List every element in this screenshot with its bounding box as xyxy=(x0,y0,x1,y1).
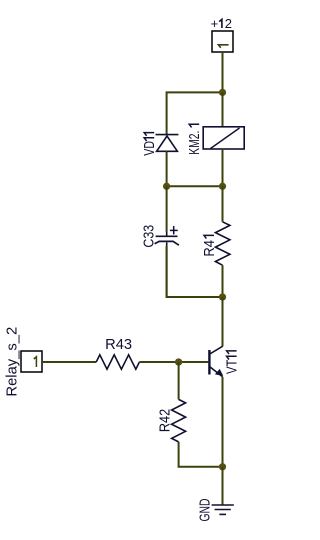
wire terminal to R43 xyxy=(42,361,96,363)
wire R41 to bottom branch xyxy=(222,265,224,297)
svg-text:R42: R42 xyxy=(158,409,174,432)
junction mid right xyxy=(219,183,226,190)
ground symbol xyxy=(212,505,234,514)
relay coil KM2.1 xyxy=(203,127,244,149)
junction mid left xyxy=(163,183,170,190)
svg-text:2: 2 xyxy=(225,16,232,31)
terminal +12 (box) xyxy=(212,31,233,52)
svg-text:GND: GND xyxy=(197,499,213,522)
svg-text:R4: R4 xyxy=(202,240,218,257)
wire base node down to R42 xyxy=(178,362,180,399)
wire relay to mid node xyxy=(222,149,224,186)
wire emitter node to ground xyxy=(222,467,224,505)
label R41 xyxy=(202,235,218,256)
terminal Relay_s_2 (box) xyxy=(21,351,42,372)
resistor R42 xyxy=(172,399,186,442)
diode VD11 xyxy=(156,135,179,152)
terminal +12 pin number 1 xyxy=(218,45,228,48)
svg-text:C33: C33 xyxy=(141,225,157,248)
wire node to relay xyxy=(222,92,224,127)
wire top branch horizontal xyxy=(167,92,223,134)
junction bottom branch node xyxy=(219,293,226,300)
resistor R41 xyxy=(215,222,230,265)
capacitor C33 xyxy=(155,226,179,246)
svg-text:R43: R43 xyxy=(105,337,132,353)
svg-text:+: + xyxy=(211,16,219,31)
transistor VT11 xyxy=(209,346,223,377)
svg-text:Relay_s_2: Relay_s_2 xyxy=(3,327,20,397)
wire capacitor to bottom branch xyxy=(166,246,168,297)
svg-text:KM2.: KM2. xyxy=(187,131,203,155)
svg-text:VD: VD xyxy=(142,141,158,156)
wire R43 to transistor base xyxy=(139,361,208,363)
label KM2.1 xyxy=(187,124,203,155)
label VT11 xyxy=(225,351,241,374)
wire mid node to R41 xyxy=(222,186,224,222)
power net label +12 xyxy=(211,16,232,31)
wire from +12 terminal to top node xyxy=(222,52,224,92)
junction top node xyxy=(219,89,226,96)
wire emitter down xyxy=(222,377,224,467)
wire node to collector xyxy=(222,297,224,347)
label VD11 xyxy=(142,133,158,156)
wire R42 to emitter branch xyxy=(179,442,223,467)
junction base node xyxy=(175,358,182,365)
wire bottom branch horizontal xyxy=(167,246,223,297)
terminal Relay_s_2 pin number 1 xyxy=(34,357,37,367)
wire mid branch to capacitor xyxy=(166,186,168,232)
junction emitter node xyxy=(219,463,226,470)
svg-text:VT: VT xyxy=(225,359,241,374)
wire mid branch horizontal xyxy=(167,185,223,187)
resistor R43 xyxy=(96,355,139,369)
wire diode to mid branch xyxy=(166,151,168,186)
